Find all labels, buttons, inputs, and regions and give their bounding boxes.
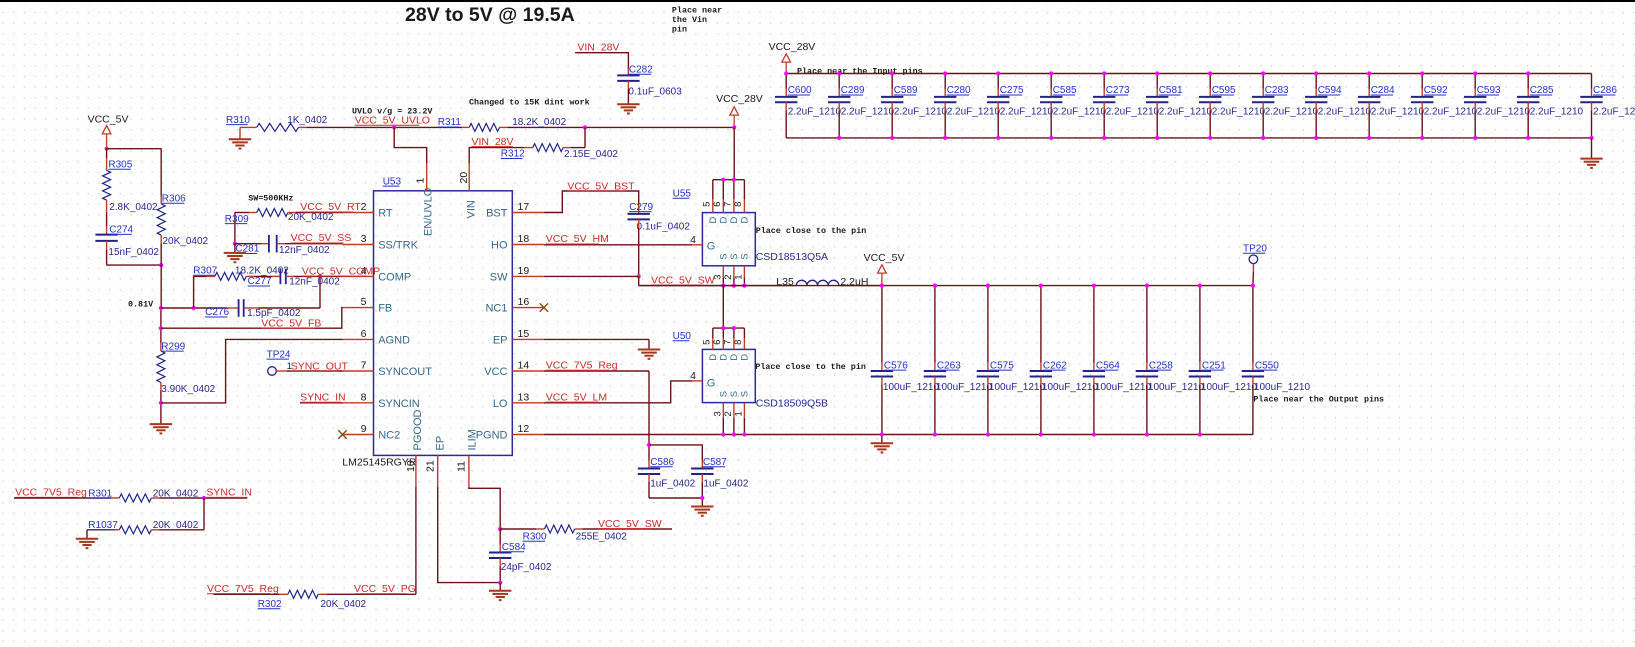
- C277 value 12nF_0402: [289, 277, 340, 288]
- ground under C282: [617, 104, 639, 113]
- capacitor C594: [1305, 74, 1327, 138]
- capacitor C589: [881, 74, 903, 138]
- svg-text:Place near the Input pins: Place near the Input pins: [797, 67, 923, 77]
- U55 ref designator: [673, 189, 692, 200]
- C262 value 100uF_1210: [1042, 382, 1099, 393]
- svg-text:2.2uF_1210: 2.2uF_1210: [1106, 106, 1160, 117]
- L35 value 2.2uH: [840, 276, 868, 288]
- svg-text:7: 7: [723, 202, 734, 207]
- svg-text:VCC_5V_COMP: VCC_5V_COMP: [302, 265, 380, 277]
- svg-text:VCC: VCC: [484, 366, 507, 378]
- wire C586/C587 bottoms to ground: [649, 474, 702, 507]
- C285 ref designator: [1530, 85, 1554, 96]
- capacitor C282: [617, 75, 639, 81]
- capacitor C276: [239, 299, 244, 317]
- capacitor C564: [1083, 286, 1105, 435]
- junctions input bus bottom: [837, 136, 1593, 140]
- svg-text:18.2K_0402: 18.2K_0402: [512, 117, 566, 128]
- C284 value 2.2uF_1210: [1371, 106, 1425, 117]
- C589 value 2.2uF_1210: [894, 106, 948, 117]
- C593 value 2.2uF_1210: [1477, 106, 1531, 117]
- svg-text:VCC_5V: VCC_5V: [864, 252, 905, 264]
- svg-text:2.2uF_1210: 2.2uF_1210: [947, 106, 1001, 117]
- test point TP24: [267, 349, 292, 375]
- wire input bank bottom bus: [786, 137, 1591, 139]
- svg-text:VCC_5V_SW: VCC_5V_SW: [651, 274, 715, 286]
- svg-text:VCC_5V_LM: VCC_5V_LM: [546, 391, 607, 403]
- net label SYNC_IN (pin 8): [300, 392, 346, 404]
- U55 D pin labels: [708, 217, 751, 224]
- U53 bottom pin names PGOOD EP ILIM: [412, 409, 479, 450]
- U50 D pin labels: [708, 354, 751, 361]
- svg-text:SS/TRK: SS/TRK: [378, 240, 418, 252]
- wire C276 to COMP junction: [244, 276, 320, 308]
- svg-text:2: 2: [361, 201, 367, 213]
- wire SW node line: [639, 285, 789, 287]
- net label VCC_5V_LM: [546, 391, 607, 403]
- junction C586/C587 ground node: [700, 496, 704, 500]
- C587 ref designator: [703, 457, 727, 468]
- U55 drain bus junctions: [721, 178, 736, 182]
- svg-text:2.2uF_1210: 2.2uF_1210: [1212, 106, 1266, 117]
- junction FB node row A: [159, 306, 163, 310]
- ground at input bank end: [1580, 138, 1602, 168]
- resistor R306: [157, 149, 165, 308]
- svg-text:D: D: [708, 217, 719, 224]
- svg-text:D: D: [729, 354, 740, 361]
- junctions output bus top: [880, 284, 1255, 288]
- note: changed to 15K dint work: [469, 98, 590, 108]
- svg-text:2.2uF_1210: 2.2uF_1210: [1530, 106, 1584, 117]
- transistor U50 body: [702, 349, 755, 402]
- wire SW line down to U50 drain bus: [722, 286, 724, 329]
- capacitor C283: [1252, 74, 1274, 138]
- svg-text:2.8K_0402: 2.8K_0402: [109, 202, 158, 213]
- resistor R305: [103, 149, 111, 227]
- wire VIN_28V stub to C282: [575, 53, 628, 76]
- C282 ref designator: [629, 65, 653, 76]
- wire FB row to C276: [161, 307, 239, 309]
- net label VCC_5V_FB: [261, 317, 321, 329]
- svg-text:8: 8: [361, 391, 367, 403]
- R1037 ref designator: [88, 520, 118, 531]
- net label VCC_5V_SW (R300): [598, 518, 662, 530]
- junction at VCC_5V node: [105, 147, 109, 151]
- wire LO to U50 gate (VCC_5V_LM): [544, 381, 692, 403]
- inductor L35: [788, 280, 847, 285]
- U53 part value LM25145RGYR: [342, 457, 417, 469]
- svg-text:9: 9: [361, 423, 367, 435]
- svg-text:COMP: COMP: [378, 271, 411, 283]
- resistor R300: [500, 525, 672, 533]
- power symbol VCC_28V (mid): [716, 93, 763, 128]
- svg-text:11: 11: [455, 461, 467, 472]
- R300 ref designator: [523, 531, 547, 542]
- svg-text:6: 6: [712, 202, 723, 207]
- svg-text:12nF_0402: 12nF_0402: [289, 277, 340, 288]
- svg-text:S: S: [740, 391, 751, 397]
- U55 drain pin bus: [713, 179, 745, 181]
- svg-text:S: S: [719, 391, 730, 397]
- note: 0.81V: [128, 299, 154, 309]
- R306 ref designator: [162, 194, 186, 205]
- capacitor C289: [828, 74, 850, 138]
- L35 ref designator: [776, 276, 794, 288]
- C564 value 100uF_1210: [1095, 382, 1152, 393]
- resistor R301: [14, 494, 204, 502]
- C251 ref designator: [1202, 360, 1226, 371]
- svg-text:2: 2: [723, 411, 734, 416]
- svg-text:3: 3: [361, 233, 367, 245]
- junction UVLO/EN: [392, 125, 396, 129]
- C258 value 100uF_1210: [1148, 382, 1205, 393]
- junction R309/C281/ground: [233, 242, 237, 246]
- svg-text:Place close to the pin: Place close to the pin: [756, 226, 867, 236]
- svg-text:2.2uF_1210: 2.2uF_1210: [1593, 106, 1635, 117]
- capacitor C285: [1517, 74, 1539, 138]
- svg-text:6: 6: [712, 340, 723, 345]
- svg-text:255E_0402: 255E_0402: [576, 531, 628, 542]
- svg-text:2.2uF_1210: 2.2uF_1210: [894, 106, 948, 117]
- svg-text:VIN_28V: VIN_28V: [577, 42, 619, 54]
- net label VCC_5V_COMP: [302, 265, 380, 277]
- svg-text:2.15E_0402: 2.15E_0402: [564, 149, 618, 160]
- wire VCC_5V_FB to FB pin 5: [161, 308, 343, 329]
- svg-text:Place near the Output pins: Place near the Output pins: [1253, 395, 1384, 405]
- R309 ref designator: [225, 214, 249, 225]
- transistor U55 body: [702, 213, 755, 266]
- C289 ref designator: [841, 85, 865, 96]
- net label VCC_5V_BST: [567, 180, 635, 192]
- wire PGOOD pin 10 down: [415, 487, 417, 594]
- svg-text:VCC_7V5_Reg: VCC_7V5_Reg: [546, 360, 618, 372]
- capacitor C586: [638, 469, 660, 475]
- C286 ref designator: [1593, 85, 1617, 96]
- capacitor C277: [254, 269, 294, 285]
- R302 ref designator: [258, 599, 282, 610]
- svg-text:2.2uF_1210: 2.2uF_1210: [1265, 106, 1319, 117]
- net label VCC_5V_UVLO: [355, 114, 430, 126]
- C276 ref designator: [205, 307, 229, 318]
- svg-text:3.90K_0402: 3.90K_0402: [161, 384, 215, 395]
- svg-text:20K_0402: 20K_0402: [163, 236, 209, 247]
- svg-text:VCC_5V_BST: VCC_5V_BST: [567, 180, 635, 192]
- C279 ref designator: [629, 202, 653, 213]
- wire L35 to output bus: [847, 285, 882, 287]
- svg-text:SYNC_IN: SYNC_IN: [300, 392, 346, 404]
- svg-text:SW=500KHz: SW=500KHz: [248, 194, 293, 204]
- svg-text:0.81V: 0.81V: [128, 299, 154, 309]
- power symbol VCC_5V (left): [88, 114, 129, 149]
- wire UVLO node to R311: [394, 126, 462, 128]
- svg-text:15nF_0402: 15nF_0402: [108, 247, 159, 258]
- U50 top pin numbers 5 6 7 8: [702, 340, 745, 345]
- svg-text:VCC_5V_PG: VCC_5V_PG: [354, 583, 416, 595]
- junction AGND/R299 node: [159, 401, 163, 405]
- resistor R312: [525, 127, 585, 151]
- capacitor C262: [1030, 286, 1052, 435]
- U53 left pin stubs: [343, 213, 374, 435]
- capacitor C280: [934, 74, 956, 138]
- C600 ref designator: [788, 85, 812, 96]
- junction C584/EP ground node: [498, 581, 502, 585]
- svg-text:2.2uF_1210: 2.2uF_1210: [788, 106, 842, 117]
- C263 ref designator: [937, 360, 961, 371]
- R310 value 1K_0402: [287, 115, 327, 126]
- svg-text:D: D: [729, 217, 740, 224]
- wire R309 left down to SS node: [234, 213, 236, 244]
- U55 S pin labels: [719, 253, 751, 259]
- C594 ref designator: [1318, 85, 1342, 96]
- wire TP24 to SYNCOUT pin 7: [276, 370, 342, 372]
- C587 value 1uF_0402: [703, 479, 748, 490]
- note: place close to the pin (U50): [755, 362, 866, 372]
- wire EP pin 15 to ground: [544, 339, 649, 349]
- wire output VCC_5V bus: [639, 285, 1253, 287]
- C282 value 0.1uF_0603: [628, 87, 682, 98]
- C274 ref designator: [109, 225, 133, 236]
- R299 value 3.90K_0402: [161, 384, 215, 395]
- U55 drain pin stubs: [713, 180, 745, 213]
- svg-text:S: S: [729, 391, 740, 397]
- wire input bank top bus: [786, 73, 1591, 75]
- ground on PGND bus: [871, 435, 893, 453]
- C594 value 2.2uF_1210: [1318, 106, 1372, 117]
- U55 gate stub pin 4: [692, 244, 702, 246]
- C286 value 2.2uF_1210: [1593, 106, 1635, 117]
- svg-text:Changed to 15K dint work: Changed to 15K dint work: [469, 98, 590, 108]
- svg-text:RT: RT: [378, 208, 393, 220]
- C564 ref designator: [1096, 360, 1120, 371]
- net label SYNC_OUT: [291, 360, 349, 372]
- svg-text:0.1uF_0402: 0.1uF_0402: [637, 222, 691, 233]
- note: UVLO v/g = 23.2V: [352, 107, 433, 117]
- R312 ref designator: [501, 149, 525, 160]
- svg-text:5: 5: [702, 202, 713, 207]
- note: place near the Input pins: [797, 67, 923, 77]
- svg-text:VCC_5V_FB: VCC_5V_FB: [261, 317, 321, 329]
- R299 ref designator: [161, 341, 185, 352]
- capacitor C600: [775, 74, 797, 138]
- svg-text:AGND: AGND: [378, 334, 410, 346]
- svg-text:100uF_1210: 100uF_1210: [1148, 382, 1205, 393]
- svg-text:5: 5: [361, 296, 367, 308]
- net label VIN_28V (C282 stub): [577, 42, 619, 54]
- svg-text:2.2uF_1210: 2.2uF_1210: [1477, 106, 1531, 117]
- C592 ref designator: [1424, 85, 1448, 96]
- svg-text:D: D: [740, 354, 751, 361]
- svg-text:VIN: VIN: [465, 200, 477, 218]
- C275 value 2.2uF_1210: [1000, 106, 1054, 117]
- C589 ref designator: [894, 85, 918, 96]
- R311 ref designator: [438, 117, 462, 128]
- svg-text:100uF_1210: 100uF_1210: [989, 382, 1046, 393]
- U50 source pin stubs: [723, 403, 744, 435]
- svg-text:20K_0402: 20K_0402: [153, 488, 199, 499]
- C575 value 100uF_1210: [989, 382, 1046, 393]
- capacitor C595: [1199, 74, 1221, 138]
- svg-text:13: 13: [518, 391, 530, 403]
- capacitor C593: [1464, 74, 1486, 138]
- svg-text:SYNC_OUT: SYNC_OUT: [291, 360, 349, 372]
- C289 value 2.2uF_1210: [841, 106, 895, 117]
- net label VIN_28V (R312 row): [472, 136, 514, 148]
- svg-text:SYNC_IN: SYNC_IN: [206, 487, 252, 499]
- net label VCC_7V5_Reg (VCC pin): [546, 360, 618, 372]
- C581 ref designator: [1159, 85, 1183, 96]
- no-connect X at NC1 pin 16: [540, 303, 548, 311]
- U50 G pin label: [707, 378, 716, 390]
- C280 value 2.2uF_1210: [947, 106, 1001, 117]
- capacitor C284: [1358, 74, 1380, 138]
- U50 drain pin bus: [713, 327, 745, 329]
- U53 left pin numbers: [361, 201, 367, 435]
- svg-text:3: 3: [713, 411, 724, 416]
- svg-text:18: 18: [518, 233, 530, 245]
- capacitor C286: [1580, 74, 1602, 138]
- U55 top pin numbers 5 6 7 8: [702, 202, 745, 207]
- svg-text:Place near: Place near: [672, 6, 722, 16]
- svg-text:VIN_28V: VIN_28V: [472, 136, 514, 148]
- C593 ref designator: [1477, 85, 1501, 96]
- C285 value 2.2uF_1210: [1530, 106, 1584, 117]
- capacitor C592: [1411, 74, 1433, 138]
- junction R307 bottom on FB row: [192, 306, 196, 310]
- svg-text:2.2uF_1210: 2.2uF_1210: [1053, 106, 1107, 117]
- svg-text:17: 17: [518, 201, 530, 213]
- svg-text:the Vin: the Vin: [672, 15, 707, 25]
- power symbol VCC_5V (output): [864, 252, 905, 286]
- capacitor C273: [1093, 74, 1115, 138]
- C575 ref designator: [990, 360, 1014, 371]
- svg-text:G: G: [707, 241, 716, 253]
- junction FB node row B: [159, 326, 163, 330]
- svg-text:VCC_5V_SW: VCC_5V_SW: [598, 518, 662, 530]
- R310 ref designator: [226, 115, 250, 126]
- U53 top pin numbers 1 and 20: [415, 172, 470, 184]
- ground under C586/C587: [691, 507, 713, 516]
- wire FB node down to R299: [160, 308, 162, 343]
- U53 right pin stubs: [512, 213, 544, 435]
- svg-text:100uF_1210: 100uF_1210: [1254, 382, 1311, 393]
- wire C282 to ground: [627, 81, 629, 104]
- C586 value 1uF_0402: [650, 479, 695, 490]
- svg-text:1: 1: [734, 411, 745, 416]
- R306 value 20K_0402: [163, 236, 209, 247]
- U50 S pin labels: [719, 391, 751, 397]
- net label VCC_7V5_Reg (R302): [207, 583, 279, 595]
- svg-text:S: S: [740, 253, 751, 259]
- R301 ref designator: [88, 488, 112, 499]
- svg-text:1: 1: [734, 275, 745, 280]
- R305 value 2.8K_0402: [109, 202, 158, 213]
- svg-text:2: 2: [723, 275, 734, 280]
- note: place near the Output pins: [1253, 395, 1384, 405]
- svg-text:1K_0402: 1K_0402: [287, 115, 327, 126]
- svg-text:NC1: NC1: [485, 303, 507, 315]
- C281 ref designator: [235, 244, 259, 255]
- wire AGND pin 6 to ground net: [161, 339, 343, 403]
- capacitor C275: [987, 74, 1009, 138]
- svg-text:8: 8: [733, 340, 744, 345]
- ground under C281 node: [224, 244, 246, 263]
- U53 left pin names: [378, 208, 432, 442]
- U50 part value CSD18509Q5B: [756, 397, 828, 409]
- wire ILIM pin 11 to R300 node: [469, 487, 500, 529]
- svg-text:FB: FB: [378, 303, 392, 315]
- wire C274 bottom to R306 bottom: [107, 264, 162, 266]
- svg-text:5: 5: [702, 340, 713, 345]
- svg-text:EP: EP: [435, 436, 447, 451]
- svg-text:VCC_5V: VCC_5V: [88, 114, 129, 126]
- U53 right pin names: [476, 208, 508, 442]
- C273 value 2.2uF_1210: [1106, 106, 1160, 117]
- U53 top pin names EN/UVLO and VIN: [423, 187, 478, 236]
- resistor R299: [157, 343, 165, 424]
- U50 gate pin number 4: [690, 370, 696, 382]
- net label VCC_5V_SS: [291, 232, 352, 244]
- capacitor C584: [489, 529, 511, 583]
- capacitor C263: [924, 286, 946, 435]
- svg-text:pin: pin: [672, 25, 687, 35]
- svg-text:2.2uF_1210: 2.2uF_1210: [1159, 106, 1213, 117]
- svg-text:VCC_7V5_Reg: VCC_7V5_Reg: [207, 583, 279, 595]
- U55 bottom pin numbers 3 2 1: [713, 275, 745, 280]
- title text: [405, 4, 575, 26]
- svg-text:VCC_28V: VCC_28V: [769, 41, 816, 53]
- wire C279 to SW node: [638, 219, 640, 276]
- U55 source pin stubs: [723, 266, 744, 286]
- junction C276/COMP: [318, 274, 322, 278]
- C550 ref designator: [1255, 360, 1279, 371]
- svg-text:100uF_1210: 100uF_1210: [883, 382, 940, 393]
- svg-text:Place close to the pin: Place close to the pin: [755, 362, 866, 372]
- svg-text:100uF_1210: 100uF_1210: [1201, 382, 1258, 393]
- svg-text:10: 10: [405, 460, 417, 472]
- svg-text:20K_0402: 20K_0402: [321, 599, 367, 610]
- R312 value 2.15E_0402: [564, 149, 618, 160]
- svg-text:CSD18513Q5A: CSD18513Q5A: [756, 251, 828, 263]
- wire EN/UVLO pin 1 path: [394, 127, 427, 163]
- svg-text:D: D: [740, 217, 751, 224]
- capacitor C274: [95, 227, 117, 266]
- svg-text:7: 7: [361, 360, 367, 372]
- wire HO to U55 gate (VCC_5V_HM): [544, 244, 692, 246]
- junction VCC_7V5_Reg / C587 branch: [647, 443, 651, 447]
- C280 ref designator: [947, 85, 971, 96]
- R311 value 18.2K_0402: [512, 117, 566, 128]
- svg-text:D: D: [719, 354, 730, 361]
- test point TP20: [1243, 244, 1267, 286]
- op-amp U53 LM25145RGYR body: [374, 191, 513, 456]
- svg-text:100uF_1210: 100uF_1210: [1095, 382, 1152, 393]
- resistor R302: [213, 590, 416, 598]
- svg-text:20K_0402: 20K_0402: [288, 212, 334, 223]
- svg-text:VCC_7V5_Reg: VCC_7V5_Reg: [15, 487, 87, 499]
- svg-text:VCC_5V_SS: VCC_5V_SS: [291, 232, 352, 244]
- svg-text:2.2uF_1210: 2.2uF_1210: [1000, 106, 1054, 117]
- resistor R309: [235, 209, 343, 217]
- svg-text:BST: BST: [486, 208, 508, 220]
- capacitor C251: [1189, 286, 1211, 435]
- wire VCC_5V node to R306 branch: [107, 148, 162, 150]
- svg-text:7: 7: [723, 340, 734, 345]
- U53 bottom pin stubs: [416, 455, 469, 487]
- svg-text:HO: HO: [491, 240, 508, 252]
- svg-text:VCC_5V_HM: VCC_5V_HM: [546, 233, 609, 245]
- R302 value 20K_0402: [321, 599, 367, 610]
- svg-text:VCC_28V: VCC_28V: [716, 93, 763, 105]
